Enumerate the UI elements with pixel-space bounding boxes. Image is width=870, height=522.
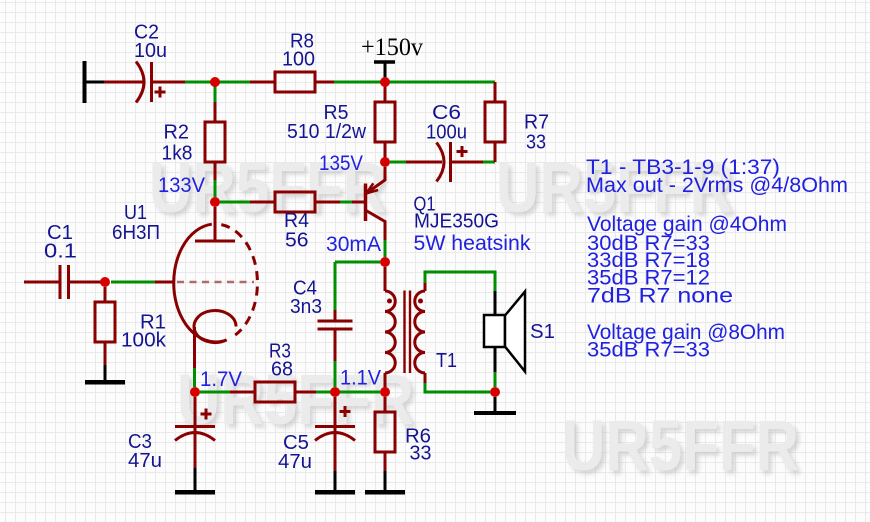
svg-text:33: 33 xyxy=(410,443,432,465)
svg-text:7dB R7 none: 7dB R7 none xyxy=(587,285,733,308)
svg-text:68: 68 xyxy=(271,359,293,381)
svg-text:Max out - 2Vrms @4/8Ohm: Max out - 2Vrms @4/8Ohm xyxy=(586,174,848,197)
svg-text:R7: R7 xyxy=(524,112,549,134)
svg-text:135V: 135V xyxy=(319,152,363,175)
svg-text:100u: 100u xyxy=(426,122,467,144)
svg-text:1.1V: 1.1V xyxy=(340,367,381,390)
svg-text:5W heatsink: 5W heatsink xyxy=(414,232,531,255)
svg-text:S1: S1 xyxy=(530,321,555,343)
svg-text:33: 33 xyxy=(526,132,546,154)
svg-text:1k8: 1k8 xyxy=(162,143,193,165)
svg-text:U1: U1 xyxy=(124,202,147,224)
svg-text:T1: T1 xyxy=(436,350,457,372)
svg-text:510 1/2w: 510 1/2w xyxy=(287,121,367,143)
svg-text:35dB R7=33: 35dB R7=33 xyxy=(587,339,710,362)
svg-text:10u: 10u xyxy=(134,40,167,62)
svg-text:133V: 133V xyxy=(158,174,205,197)
svg-text:MJE350G: MJE350G xyxy=(414,211,499,233)
svg-text:0.1: 0.1 xyxy=(44,241,77,263)
svg-text:6Н3П: 6Н3П xyxy=(112,222,160,244)
svg-text:1.7V: 1.7V xyxy=(200,368,242,391)
svg-text:56: 56 xyxy=(285,230,309,252)
svg-text:R2: R2 xyxy=(164,122,190,144)
svg-text:+150v: +150v xyxy=(361,34,423,61)
svg-text:UR5FFR: UR5FFR xyxy=(562,407,799,486)
svg-text:47u: 47u xyxy=(128,450,162,472)
svg-text:3n3: 3n3 xyxy=(290,296,322,318)
svg-text:100: 100 xyxy=(282,49,315,71)
svg-text:30mA: 30mA xyxy=(326,233,381,256)
svg-text:100k: 100k xyxy=(121,330,167,352)
svg-text:47u: 47u xyxy=(278,451,312,473)
